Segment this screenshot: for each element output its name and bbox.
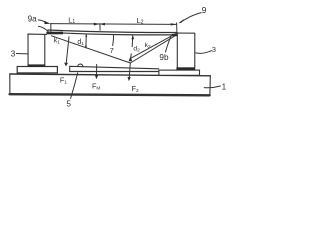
dimension line L1/L2 [51,23,177,26]
leader 9a [38,20,45,22]
left pedestal slab [17,67,57,73]
force arrow F1 [66,37,69,63]
svg-text:5: 5 [66,99,71,108]
leader 3 right [196,51,212,54]
left post foot (dark) [28,64,46,66]
band 9 top line [48,30,177,33]
right dim arrowhead [171,23,177,25]
svg-text:9: 9 [202,5,207,15]
d1 dimension line [85,34,87,48]
band left curl [39,26,50,33]
svg-text:9b: 9b [159,53,169,62]
right clamp 9b (dark spot) [172,34,177,36]
base plate 1 [10,74,211,76]
leader 3 left [16,53,27,55]
band 9 bottom line [48,32,177,35]
deflected band right leg upper [130,33,176,58]
leader 5 [71,73,78,99]
leader 9 [180,13,201,23]
right post 3 [177,33,195,67]
leader 7 [112,35,115,46]
svg-text:7: 7 [110,46,114,55]
d1 top arrowhead [85,34,87,37]
svg-text:3: 3 [212,45,216,54]
left post 3 [28,34,47,64]
right extension line [176,23,178,33]
middle bowtie arrowheads [94,23,100,26]
right post foot (dark) [176,67,195,70]
base bottom edge (thick) [10,94,210,95]
deflected band left leg [52,36,131,63]
right pedestal slab [159,70,200,75]
svg-text:9a: 9a [28,15,38,24]
d2 dimension line [131,36,133,57]
arrowhead 9 [178,19,184,24]
dome on platform [78,64,83,67]
leader 9b [166,36,171,52]
middle extension line [99,24,101,30]
left clamp 9a (dark bar) [46,32,63,35]
force arrow F2 [129,63,130,77]
svg-text:1: 1 [222,83,227,92]
d1 bottom arrowhead [85,46,87,49]
left extension line [50,23,52,31]
deflected band right leg lower [130,35,176,63]
svg-text:3: 3 [11,50,16,59]
platform 5 [70,66,159,71]
d2 top arrowhead [131,35,134,39]
leader to 1 [204,86,220,88]
arrowhead 9a [44,21,50,24]
force arrow FM [96,64,98,75]
d2 bottom arrowhead [129,56,133,61]
